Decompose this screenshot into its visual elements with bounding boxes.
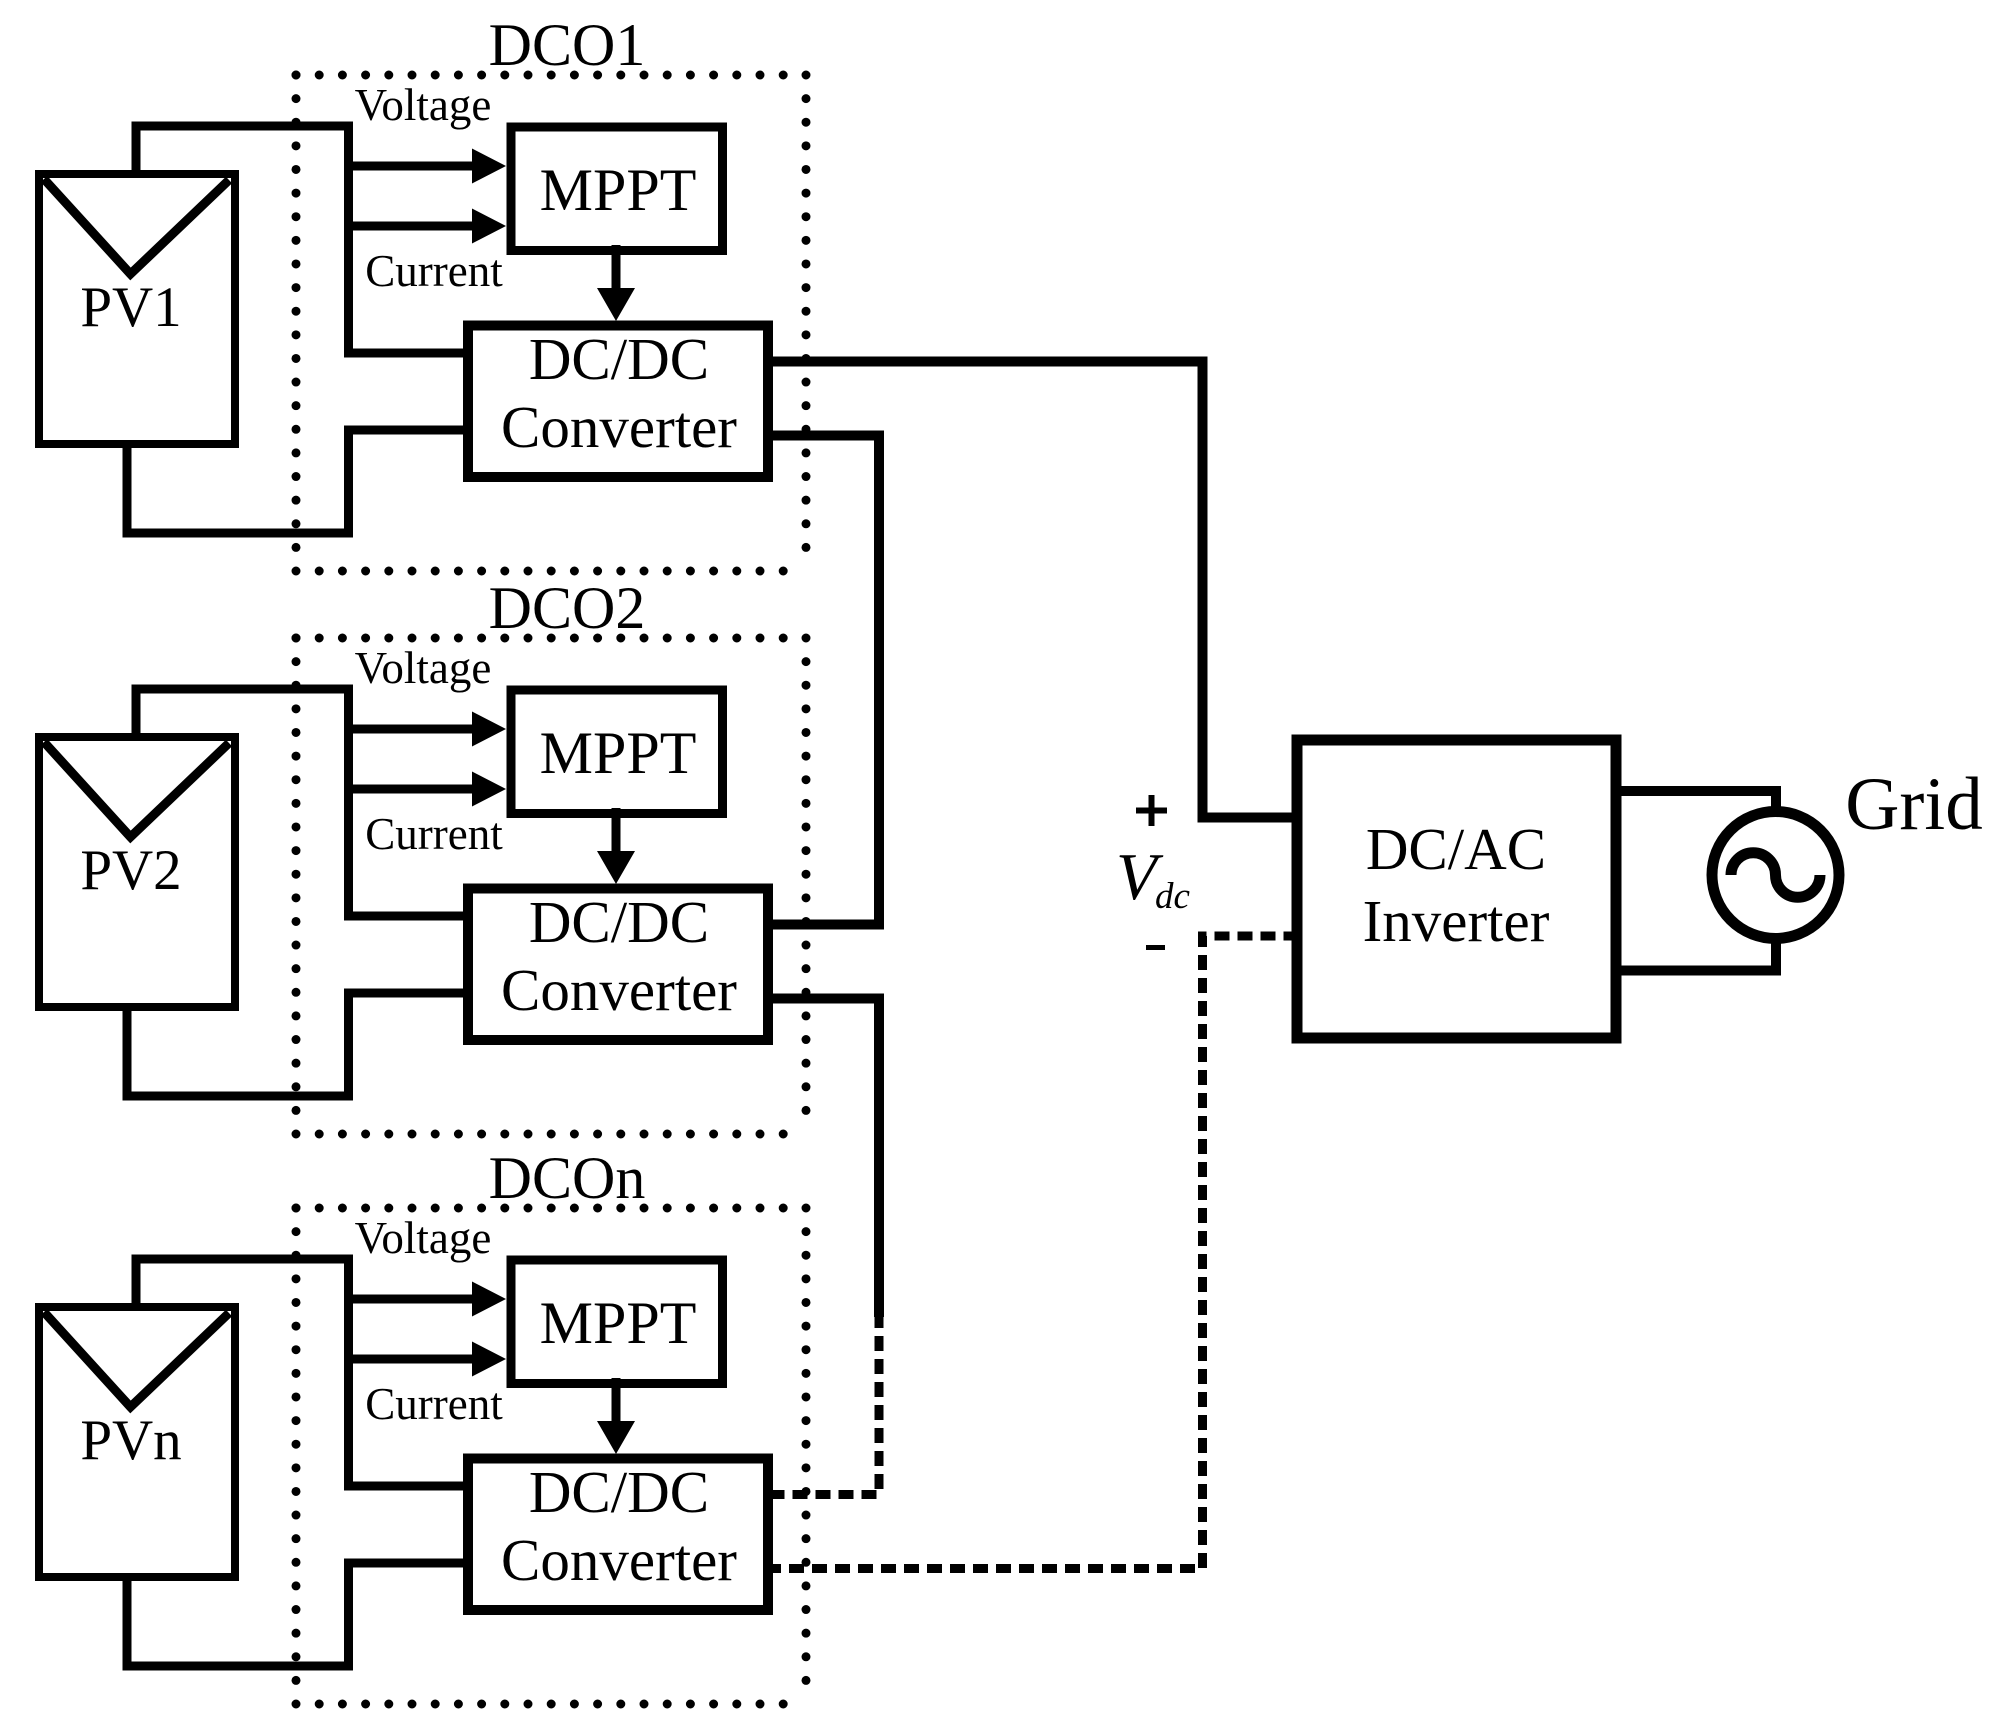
- minus label: [1146, 945, 1165, 950]
- voltage arrow into MPPT: [348, 149, 506, 184]
- wire PV2 top to converter positive input: [136, 689, 464, 916]
- wire converter1 negative output to converter2 positive output (series link): [770, 436, 879, 925]
- wire converter2 negative output down (solid part): [770, 999, 879, 1318]
- svg-text:MPPT: MPPT: [540, 1290, 697, 1356]
- MPPT block 1: [511, 127, 723, 251]
- wire PVn bottom to converter negative input: [127, 1563, 464, 1666]
- svg-text:DCOn: DCOn: [489, 1145, 646, 1211]
- svg-text:DCO1: DCO1: [489, 12, 646, 78]
- dashed wire converter-n negative output to inverter minus input: [766, 936, 1293, 1569]
- DC/DC converter block n: [468, 1459, 768, 1611]
- dotted enclosure DCO1: [296, 75, 806, 571]
- arrow MPPT to converter: [597, 245, 635, 321]
- svg-text:Converter: Converter: [501, 957, 737, 1023]
- voltage arrow into MPPT: [348, 1282, 506, 1317]
- current arrow into MPPT: [348, 772, 506, 807]
- wire PV1 top to converter positive input: [136, 126, 464, 353]
- PV panel PV1: [39, 174, 235, 444]
- DC/DC converter block 2: [468, 889, 768, 1041]
- plus label: [1136, 795, 1167, 826]
- dotted enclosure DCOn: [296, 1208, 806, 1704]
- arrow MPPT to converter: [597, 1378, 635, 1454]
- svg-text:MPPT: MPPT: [540, 720, 697, 786]
- wire inverter AC top to grid source: [1616, 791, 1776, 812]
- svg-text:DCO2: DCO2: [489, 575, 646, 641]
- MPPT block n: [511, 1260, 723, 1384]
- svg-text:DC/DC: DC/DC: [529, 1459, 709, 1525]
- svg-text:Converter: Converter: [501, 394, 737, 460]
- label Vdc: [1116, 840, 1191, 917]
- current arrow into MPPT: [348, 1342, 506, 1377]
- svg-text:MPPT: MPPT: [540, 157, 697, 223]
- svg-text:Voltage: Voltage: [355, 1213, 492, 1263]
- wire PVn top to converter positive input: [136, 1259, 464, 1486]
- svg-text:DC/DC: DC/DC: [529, 326, 709, 392]
- AC source circle (grid): [1712, 812, 1839, 939]
- svg-text:dc: dc: [1155, 876, 1191, 917]
- svg-text:Converter: Converter: [501, 1527, 737, 1593]
- svg-text:Inverter: Inverter: [1363, 888, 1550, 954]
- DC/DC converter block 1: [468, 326, 768, 478]
- svg-text:PV1: PV1: [80, 276, 181, 339]
- svg-text:DC/AC: DC/AC: [1366, 816, 1546, 882]
- MPPT block 2: [511, 690, 723, 814]
- wire converter1 positive output to inverter plus bus: [770, 362, 1293, 818]
- svg-text:DC/DC: DC/DC: [529, 889, 709, 955]
- svg-text:Voltage: Voltage: [355, 80, 492, 130]
- voltage arrow into MPPT: [348, 712, 506, 747]
- svg-text:Voltage: Voltage: [355, 643, 492, 693]
- current arrow into MPPT: [348, 209, 506, 244]
- dotted enclosure DCO2: [296, 638, 806, 1134]
- arrow MPPT to converter: [597, 808, 635, 884]
- DC/AC inverter block: [1297, 740, 1616, 1038]
- svg-text:Current: Current: [365, 246, 503, 296]
- svg-text:Current: Current: [365, 1379, 503, 1429]
- wire inverter AC bottom to grid source: [1616, 938, 1776, 971]
- svg-text:PVn: PVn: [80, 1409, 181, 1472]
- svg-text:PV2: PV2: [80, 839, 181, 902]
- wire PV1 bottom to converter negative input: [127, 430, 464, 533]
- PV panel PV2: [39, 737, 235, 1007]
- PV panel PVn: [39, 1307, 235, 1577]
- dashed wire bus to converter-n positive output: [766, 1313, 879, 1495]
- wire PV2 bottom to converter negative input: [127, 993, 464, 1096]
- svg-text:Current: Current: [365, 809, 503, 859]
- svg-text:Grid: Grid: [1845, 763, 1982, 846]
